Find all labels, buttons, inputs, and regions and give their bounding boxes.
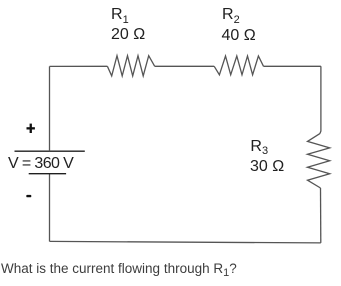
battery minus sign — [26, 195, 31, 197]
wire left side upper — [49, 66, 51, 151]
label R1 — [111, 7, 129, 23]
battery negative plate (short) — [29, 173, 66, 175]
wire right side lower — [320, 188, 322, 243]
battery voltage label V = 360 V — [8, 156, 73, 172]
value 20 ohm — [111, 27, 145, 43]
wire top-left segment — [50, 65, 108, 67]
wire top-right segment — [264, 65, 321, 67]
label R2 — [222, 7, 240, 23]
wire top-middle segment — [155, 65, 215, 67]
wire left side lower — [49, 174, 51, 242]
question text — [1, 262, 237, 276]
battery plus sign — [27, 124, 35, 133]
wire right side upper — [320, 66, 321, 133]
battery positive plate (long) — [15, 150, 85, 152]
wire bottom — [50, 241, 321, 243]
value 30 ohm — [250, 159, 284, 175]
resistor R1 — [107, 56, 154, 76]
resistor R2 — [214, 56, 263, 75]
label R3 — [250, 139, 268, 155]
value 40 ohm — [222, 28, 256, 44]
resistor R3 — [308, 134, 330, 188]
